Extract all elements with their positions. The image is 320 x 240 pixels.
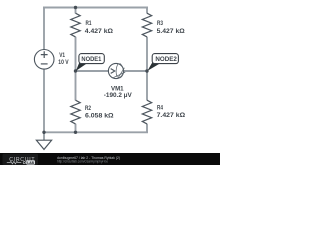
- svg-text:R2: R2: [85, 105, 91, 112]
- voltmeter VM1: [108, 63, 125, 78]
- wire voltmeter to NODE2: [123, 70, 147, 72]
- junction node A (NODE1 point): [74, 69, 77, 72]
- resistor R4: [142, 100, 151, 124]
- junction dot top of R1 branch: [74, 6, 77, 9]
- ground: [36, 140, 51, 149]
- CircuitLab logo backdrop: [3, 154, 39, 165]
- junction dot bottom of R2 branch: [74, 131, 77, 134]
- wire right branch NODE2 to R4: [146, 71, 148, 100]
- node label NODE2: [147, 54, 178, 71]
- wire top rail: [43, 7, 148, 9]
- svg-text:NODE2: NODE2: [155, 56, 177, 63]
- resistor R3: [142, 13, 151, 37]
- svg-text:7.427 kΩ: 7.427 kΩ: [157, 112, 186, 119]
- resistor R2: [71, 100, 80, 124]
- svg-text:6.058 kΩ: 6.058 kΩ: [85, 113, 114, 120]
- wire right branch R4 to bottom rail: [146, 124, 148, 133]
- node label NODE1: [76, 54, 104, 71]
- junction node B (NODE2 point): [145, 69, 148, 72]
- wire left branch upper: [43, 7, 45, 50]
- svg-text:-190.2 μV: -190.2 μV: [104, 92, 133, 99]
- wire left branch lower: [43, 69, 45, 132]
- wire mid branch NODE1 to R2: [75, 71, 77, 100]
- wire right branch top stub: [146, 7, 148, 14]
- wire ground stem: [43, 132, 45, 140]
- wire right branch between R3 and NODE2: [146, 37, 148, 71]
- junction dot ground corner: [42, 131, 45, 134]
- svg-text:NODE1: NODE1: [81, 56, 101, 63]
- CircuitLab logo zigzag wire: [7, 161, 21, 163]
- svg-text:R1: R1: [86, 20, 92, 27]
- voltage source V1: [34, 50, 54, 70]
- wire NODE1 to voltmeter: [76, 70, 109, 72]
- svg-text:http://circuitlab.com/c/sail-l: http://circuitlab.com/c/sail-lpmphyr-be: [57, 160, 108, 164]
- wire bottom rail: [43, 131, 148, 133]
- wire mid branch top stub: [75, 7, 77, 14]
- wire mid branch R2 to bottom rail: [75, 124, 77, 133]
- resistor R1: [71, 13, 80, 37]
- wire mid branch between R1 and NODE1: [75, 37, 77, 71]
- svg-text:4.427 kΩ: 4.427 kΩ: [85, 28, 113, 35]
- svg-text:LAB: LAB: [27, 161, 34, 165]
- CircuitLab logo node dot: [23, 162, 25, 164]
- svg-text:R4: R4: [157, 105, 163, 112]
- svg-text:R3: R3: [157, 20, 163, 27]
- CircuitLab logo LAB badge: [26, 160, 35, 164]
- svg-text:5.427 kΩ: 5.427 kΩ: [157, 28, 185, 35]
- svg-text:10 V: 10 V: [58, 59, 69, 66]
- watermark bar: [0, 153, 220, 165]
